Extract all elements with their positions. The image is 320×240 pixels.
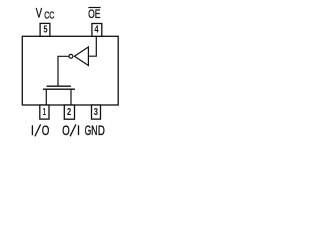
- svg-text:D: D: [98, 122, 105, 138]
- pin 3: [92, 105, 101, 119]
- OE overline: [88, 7, 100, 9]
- svg-text:2: 2: [67, 107, 72, 118]
- svg-text:O: O: [42, 122, 50, 138]
- label I/O: letter I: [31, 125, 33, 135]
- inverter U1A triangle: [74, 47, 88, 66]
- inverter output bubble: [69, 54, 73, 58]
- svg-text:V: V: [36, 5, 43, 21]
- wire channel to pin 1: [45, 89, 47, 105]
- wire pin4 to inverter input: [88, 36, 96, 56]
- svg-text:1: 1: [43, 107, 47, 118]
- svg-text:5: 5: [43, 24, 48, 35]
- label O/I: letter I: [78, 125, 80, 135]
- wire channel to pin 2: [70, 89, 72, 105]
- wire bubble to transistor gate: [58, 56, 69, 86]
- pin 5: [40, 23, 50, 36]
- transistor Q1 channel: [43, 88, 75, 90]
- svg-text:N: N: [91, 122, 97, 138]
- svg-text:3: 3: [94, 107, 99, 118]
- svg-text:4: 4: [94, 24, 99, 35]
- label I/O: slash: [35, 124, 41, 136]
- package body U1: [22, 36, 118, 105]
- label O/I: slash: [70, 124, 76, 136]
- pin 1: [40, 105, 49, 119]
- svg-text:OE: OE: [88, 7, 100, 21]
- transistor Q1 gate plate: [47, 85, 71, 87]
- svg-text:O: O: [62, 122, 70, 138]
- pin 4: [92, 24, 102, 37]
- svg-text:CC: CC: [44, 10, 54, 21]
- pin 2: [64, 105, 74, 119]
